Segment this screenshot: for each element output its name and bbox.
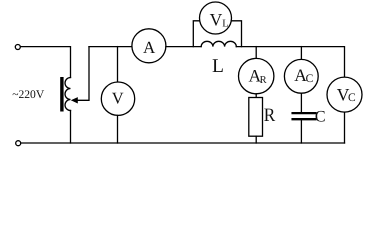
svg-text:C: C bbox=[315, 109, 326, 126]
ammeter A bbox=[132, 29, 166, 63]
svg-text:~220V: ~220V bbox=[12, 88, 45, 101]
resistor R bbox=[249, 98, 263, 137]
wire bottom rail bbox=[21, 142, 345, 144]
svg-text:L: L bbox=[212, 56, 224, 77]
voltmeter VL bbox=[200, 2, 232, 34]
capacitor C bottom plate bbox=[293, 118, 316, 120]
capacitor C top plate bbox=[293, 112, 316, 114]
wire voltmeter VL right stub bbox=[231, 21, 241, 47]
wire top rail to ammeter A bbox=[89, 46, 132, 48]
wire node to ammeter AC bbox=[300, 47, 302, 60]
wire voltmeter VC to bottom rail bbox=[344, 112, 346, 143]
wire node to voltmeter V bbox=[117, 47, 119, 83]
transformer T1 winding bbox=[65, 78, 71, 111]
transformer T1 wiper arrow bbox=[71, 97, 78, 103]
wire ammeter AR to resistor R bbox=[255, 94, 257, 98]
wire voltmeter V to bottom rail bbox=[117, 115, 119, 143]
svg-text:A: A bbox=[143, 38, 156, 57]
wire resistor R to bottom rail bbox=[255, 136, 257, 143]
wire top-left from J1 to transformer top bbox=[21, 47, 71, 78]
wire ammeter AC to capacitor C bbox=[300, 93, 302, 112]
inductor L bbox=[201, 41, 236, 46]
ammeter AC bbox=[284, 59, 318, 93]
transformer T1 core bar bbox=[60, 77, 63, 112]
terminal J2 bottom-left input bbox=[16, 141, 21, 146]
wire node to ammeter AR bbox=[255, 47, 257, 59]
voltmeter V bbox=[101, 82, 134, 115]
ammeter AR bbox=[239, 58, 274, 93]
terminal J1 top-left input bbox=[15, 45, 20, 50]
wire ammeter A to inductor L bbox=[166, 46, 201, 48]
svg-text:V: V bbox=[112, 88, 124, 107]
wire top rail right section with corner to VC bbox=[236, 47, 344, 78]
voltmeter VC bbox=[327, 77, 362, 112]
svg-text:R: R bbox=[264, 105, 276, 126]
wire voltmeter VL left stub bbox=[193, 21, 200, 47]
wire wiper output to top rail bbox=[74, 47, 89, 101]
wire capacitor C to bottom rail bbox=[300, 120, 302, 143]
wire transformer bottom lead bbox=[70, 111, 72, 144]
